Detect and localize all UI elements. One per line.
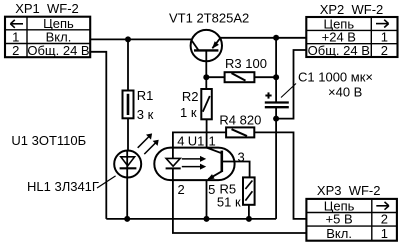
svg-text:R4 820: R4 820 [219, 113, 261, 128]
XP3 header arrow (right) [376, 202, 389, 210]
transistor VT1 [191, 30, 222, 61]
wire: XP2 pin2 (Общ. 24 В) left, down, jog to C1 bottom node [276, 50, 306, 119]
wire: R4 right to +5 rail down to XP3 pin2 (+5 В) [254, 132, 306, 219]
wire: XP1 pin2 right then down to common rail [90, 52, 107, 219]
capacitor C1 polarity plus [265, 92, 271, 98]
optocoupler U1 body [154, 148, 234, 181]
connector XP2 table [306, 17, 397, 57]
optocoupler U1 LED [166, 148, 181, 180]
wire: XP1 pin1 to VT1 collector [90, 38, 191, 40]
junction node: C1 bottom / Общ jog [273, 116, 279, 122]
svg-text:2: 2 [178, 182, 185, 197]
wire: R1 top lead [127, 39, 129, 90]
wire: U1 pin2 down to XP3 pin1 (Вкл.) [173, 180, 307, 233]
svg-text:VT1 2Т825А2: VT1 2Т825А2 [169, 11, 249, 26]
svg-text:Общ. 24 В: Общ. 24 В [27, 43, 89, 58]
resistor R4 [226, 127, 254, 137]
capacitor C1 [265, 103, 289, 108]
svg-text:U1 3ОТ110Б: U1 3ОТ110Б [11, 133, 86, 148]
junction node: +24 rail tap [273, 35, 279, 41]
wire: HL1 bottom to common rail [126, 177, 128, 219]
svg-text:4: 4 [177, 134, 184, 149]
wire: R5 bottom to common rail [248, 205, 250, 219]
svg-text:XP2 WF-2: XP2 WF-2 [320, 2, 384, 17]
resistor R5 [243, 177, 255, 204]
wire: bottom common rail [106, 218, 276, 220]
optocoupler U1 phototransistor [207, 148, 222, 180]
junction node: R3 right on +24 rail [273, 74, 279, 80]
svg-text:51 к: 51 к [217, 195, 241, 210]
junction node: R5 on common rail [246, 216, 252, 222]
junction node: HL1 on common rail [124, 216, 130, 222]
svg-text:3 к: 3 к [137, 107, 154, 122]
svg-text:3: 3 [238, 149, 245, 164]
svg-text:×40 В: ×40 В [328, 84, 362, 99]
wire: VT1 base down to base node [205, 50, 207, 77]
connector XP1 table [5, 17, 91, 58]
LED HL1 leader line [97, 176, 116, 188]
svg-text:XP1 WF-2: XP1 WF-2 [15, 1, 79, 16]
wire: U1 pin3 right and down to R5 top [222, 162, 250, 178]
svg-text:Вкл.: Вкл. [46, 29, 72, 44]
connector XP3 table [306, 199, 397, 241]
wire: C1 bottom plate down to common rail corner [275, 108, 277, 219]
wire: R1 bottom to HL1 top [127, 118, 129, 151]
svg-text:XP3 WF-2: XP3 WF-2 [317, 183, 381, 198]
resistor R2 [201, 89, 212, 119]
resistor R1 [123, 91, 134, 119]
wire: R2 bottom down to U1 pin1 (crosses LED anode wire) [206, 120, 208, 148]
svg-text:U1: U1 [188, 134, 205, 149]
svg-text:R2: R2 [182, 89, 199, 104]
wire: R3 right to +24 rail [254, 76, 276, 78]
svg-text:1: 1 [381, 226, 388, 241]
svg-text:HL1 3Л341Г: HL1 3Л341Г [27, 179, 99, 194]
svg-text:R1: R1 [137, 88, 154, 103]
transistor VT1 emitter arrow (PNP, points to base) [212, 41, 219, 49]
svg-text:1: 1 [209, 134, 216, 149]
svg-text:1 к: 1 к [180, 105, 197, 120]
svg-text:Общ. 24 В: Общ. 24 В [308, 43, 370, 58]
wire: U1 pin5 down to common rail [206, 180, 208, 219]
svg-text:R3 100: R3 100 [225, 56, 267, 71]
junction node: VT1 base / R3 / R2 [203, 74, 209, 80]
junction node: U1 pin5 on common rail [204, 216, 210, 222]
svg-text:1: 1 [12, 29, 19, 44]
wire: U1 pin4 up and right to R4 left (LED anode line) [173, 132, 226, 147]
wire: VT1 emitter to XP2 pin1 (+24 V) [220, 37, 306, 39]
optocoupler U1 emission arrows [182, 156, 206, 170]
svg-text:2: 2 [381, 43, 388, 58]
wire: base node to R3 left [206, 76, 224, 78]
svg-text:C1 1000 мк×: C1 1000 мк× [298, 69, 373, 84]
svg-text:5: 5 [208, 182, 215, 197]
resistor R3 [225, 72, 255, 82]
svg-text:+5 В: +5 В [326, 212, 353, 227]
svg-text:Вкл.: Вкл. [326, 226, 352, 241]
junction node: R1 tap on XP1 pin1 wire [125, 36, 131, 42]
optocoupler U1 emitter arrow [207, 174, 214, 180]
XP2 header arrow (right) [376, 20, 389, 28]
LED HL1 emission arrows [138, 133, 159, 154]
svg-text:2: 2 [381, 212, 388, 227]
wire: base node down to R2 top [205, 77, 207, 88]
svg-text:2: 2 [12, 43, 19, 58]
capacitor C1 leader line [281, 84, 296, 98]
XP1 header arrow (left) [10, 20, 23, 28]
wire: +24 rail down from top wire to C1 top plate [275, 38, 277, 102]
LED HL1 [114, 151, 141, 178]
